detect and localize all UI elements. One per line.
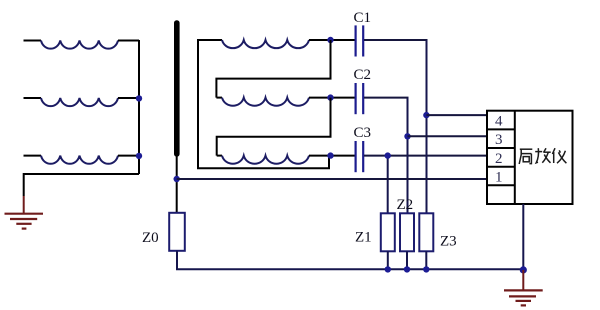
wire C1 to node4 drop bbox=[364, 39, 428, 41]
wire secondary phase a to C1 bbox=[309, 39, 355, 41]
svg-text:2: 2 bbox=[495, 151, 503, 167]
wire primary phase B to bus bbox=[118, 97, 139, 99]
wire primary neutral to ground bbox=[24, 174, 139, 196]
node pin3 tap bbox=[404, 133, 410, 139]
impedance Z3 bbox=[419, 213, 433, 251]
svg-text:1: 1 bbox=[495, 170, 503, 186]
node primary bus junction B bbox=[136, 95, 142, 101]
winding L6 secondary phase c bbox=[222, 156, 309, 164]
wire vertical drop to Z2 bbox=[407, 98, 409, 213]
node primary bus junction C bbox=[136, 153, 142, 159]
wire primary neutral bus bbox=[138, 40, 140, 174]
wire primary phase C lead-in bbox=[24, 155, 42, 157]
node Z2 bus junction bbox=[404, 266, 410, 272]
svg-text:C3: C3 bbox=[354, 125, 372, 141]
svg-text:Z1: Z1 bbox=[355, 230, 372, 246]
svg-text:C2: C2 bbox=[354, 67, 372, 83]
wire primary phase C to bus bbox=[118, 155, 139, 157]
capacitor C2 bbox=[356, 83, 364, 114]
wire secondary phase c lead bbox=[217, 155, 222, 157]
wire primary phase B lead-in bbox=[24, 97, 42, 99]
wire secondary phase c to C3 bbox=[309, 155, 355, 157]
wire Z1 to bottom bus bbox=[387, 251, 389, 269]
wire primary phase A lead-in bbox=[24, 40, 42, 42]
wire core to Z0 bbox=[176, 157, 178, 214]
wire instrument pin3 bbox=[408, 135, 487, 137]
wire instrument pin1 from tank bbox=[177, 178, 487, 180]
svg-text:Z0: Z0 bbox=[142, 230, 159, 246]
svg-text:Z3: Z3 bbox=[440, 233, 457, 249]
wire instrument pin4 bbox=[426, 114, 486, 116]
node pin4 tap bbox=[423, 112, 429, 118]
instrument box U1 outline bbox=[487, 111, 573, 204]
winding L4 secondary phase a bbox=[222, 40, 309, 48]
wire secondary phase a lead bbox=[197, 39, 222, 41]
wire instrument ground lead bbox=[522, 204, 524, 270]
impedance Z2 bbox=[400, 213, 414, 251]
svg-text:Z2: Z2 bbox=[397, 197, 414, 213]
wire bottom measuring bus bbox=[176, 268, 523, 270]
impedance Z0 bbox=[169, 213, 185, 251]
instrument terminal column divider bbox=[514, 111, 516, 204]
wire delta link b-c bbox=[217, 98, 331, 156]
label 局放仪 glyph fang bbox=[535, 148, 551, 163]
node secondary terminal a bbox=[327, 37, 333, 43]
winding L1 primary phase A bbox=[41, 41, 118, 49]
wire secondary delta left bus bbox=[198, 40, 329, 168]
wire ground stub left bbox=[23, 196, 25, 213]
wire secondary phase b to C2 bbox=[309, 97, 355, 99]
wire Z0 to bottom bus bbox=[176, 251, 178, 269]
instrument cell dividers bbox=[487, 129, 515, 185]
wire vertical drop to Z3 bbox=[426, 40, 428, 213]
capacitor C3 bbox=[356, 141, 364, 172]
node ground junction bbox=[520, 266, 527, 273]
node secondary terminal b bbox=[327, 94, 333, 100]
wire vertical drop to Z1 bbox=[387, 156, 389, 213]
winding L2 primary phase B bbox=[41, 98, 118, 106]
label 局放仪 glyph ju bbox=[519, 149, 532, 164]
node Z3 bus junction bbox=[423, 266, 429, 272]
ground left bbox=[5, 214, 44, 229]
wire ground stub right bbox=[522, 270, 524, 290]
winding L5 secondary phase b bbox=[222, 98, 309, 106]
node pin2 tap bbox=[385, 152, 391, 158]
wire secondary phase b lead bbox=[216, 97, 222, 99]
capacitor C1 bbox=[356, 25, 364, 56]
node tank junction bbox=[174, 176, 180, 182]
wire Z3 to bottom bus bbox=[425, 251, 427, 269]
wire primary phase A to bus bbox=[118, 40, 139, 42]
svg-text:4: 4 bbox=[495, 114, 503, 130]
wire C2 to node3 drop bbox=[364, 97, 409, 99]
impedance Z1 bbox=[381, 213, 395, 251]
node Z1 bus junction bbox=[385, 266, 391, 272]
wire delta link a-b bbox=[216, 40, 330, 98]
winding L3 primary phase C bbox=[41, 156, 118, 164]
svg-text:C1: C1 bbox=[354, 10, 372, 26]
label 局放仪 glyph yi bbox=[552, 148, 566, 163]
wire C3 to instrument pin2 bbox=[364, 155, 487, 157]
node secondary terminal c bbox=[327, 152, 333, 158]
wire Z2 to bottom bus bbox=[406, 251, 408, 269]
ground right bbox=[504, 290, 543, 305]
transformer core bar bbox=[174, 20, 180, 156]
svg-text:3: 3 bbox=[495, 132, 503, 148]
